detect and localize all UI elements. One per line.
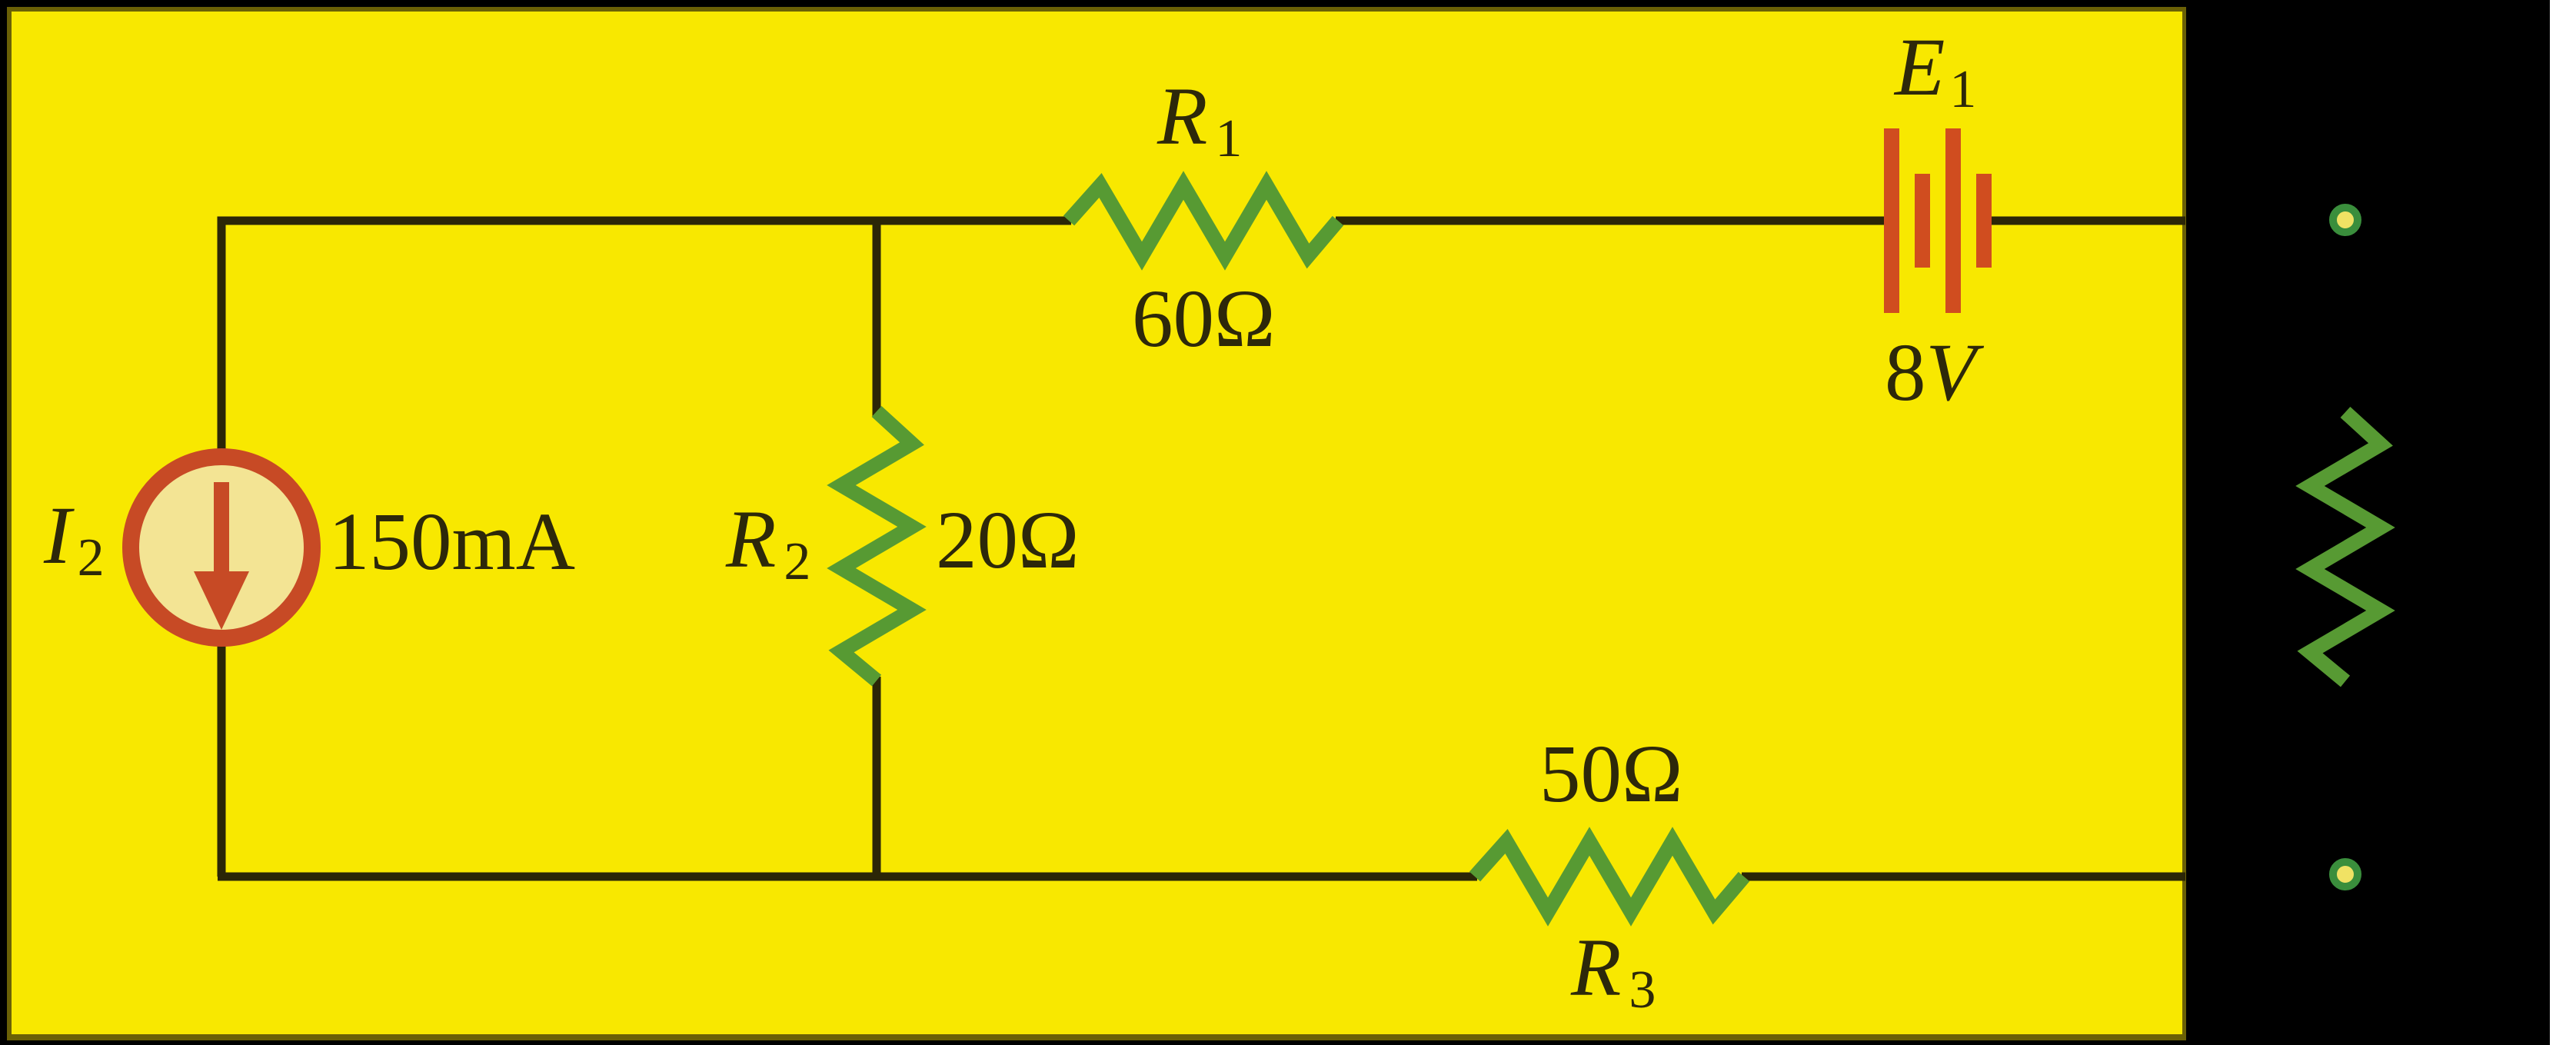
terminal node bottom [2333,862,2358,887]
wire top-left L [221,221,1071,877]
resistor R1 zigzag [1069,185,1338,256]
resistor R3 zigzag [1475,841,1744,912]
battery E1 plates [1884,128,1992,313]
svg-text:8V: 8V [1885,328,1985,418]
svg-text:150mA: 150mA [328,497,575,587]
svg-text:50Ω: 50Ω [1539,729,1683,820]
wire middle branch bottom [873,677,881,877]
resistor R2 zigzag [841,411,912,681]
wire bottom-left [218,873,1477,881]
wire top-middle: R1 to battery [1336,217,1885,225]
svg-text:60Ω: 60Ω [1132,274,1276,364]
wire top-right: battery to terminal [1990,217,2185,225]
terminal node top [2333,208,2358,232]
load resistor zigzag [2310,412,2381,681]
svg-text:20Ω: 20Ω [936,495,1080,586]
wire bottom-right: R3 to terminal [1742,873,2185,881]
current source I2 circle [131,457,312,638]
wire middle branch top [873,221,881,417]
current source arrow [194,482,249,630]
